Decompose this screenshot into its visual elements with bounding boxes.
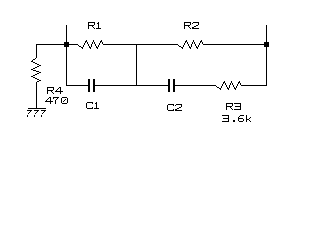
resistor R2 [177,40,204,49]
label R4 [47,87,63,94]
node A stub and riser at x=66 [66,25,67,86]
wire: top rail between R1 and R2 [103,44,178,45]
resistor R1 [77,40,104,49]
wire: middle riser x=136 [136,45,137,85]
label C2 [167,104,182,111]
label R1 [88,22,101,29]
label 36k [222,115,251,122]
wire: bottom rail to C1 [66,85,88,86]
wire: top rail left segment [36,44,78,45]
label C1 [86,102,99,109]
wire: R3 to right corner [241,85,267,86]
wire: C1 to C2 [95,85,168,86]
ground hatches [27,110,46,117]
resistor R4 [31,57,41,83]
label R2 [184,22,199,29]
capacitor C1 [88,79,95,92]
wire: C2 to R3 [175,85,215,86]
label R3 [226,103,241,110]
junction dot node A [64,42,69,47]
node B stub and riser at x=266 [266,25,267,86]
wire: R4 to ground [36,82,37,108]
wire: left rail down from corner [36,44,37,58]
label 470 [45,97,68,104]
resistor R3 [215,81,242,90]
junction dot node B [264,42,269,47]
capacitor C2 [168,79,175,92]
ground bar [28,108,46,109]
wire: top rail R2 to right node [203,44,264,45]
